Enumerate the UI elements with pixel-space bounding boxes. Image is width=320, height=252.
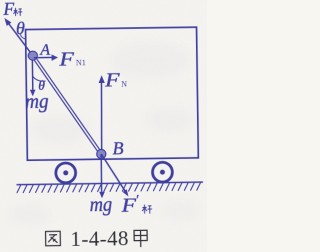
F'_rod arrow at B — [101, 154, 128, 197]
svg-text:F: F — [2, 0, 14, 19]
ground — [17, 182, 204, 193]
svg-text:mg: mg — [90, 195, 113, 216]
CJK subscript gan (rod) — [142, 205, 152, 214]
node B dot — [97, 149, 106, 158]
svg-text:B: B — [112, 138, 123, 158]
theta bottom: arc + label — [33, 76, 46, 81]
mg arrow at B — [99, 154, 105, 198]
faint scan smudges — [8, 42, 200, 225]
F_N1 arrow — [34, 54, 58, 61]
svg-text:A: A — [39, 42, 50, 59]
rod A-B (double line) — [32, 54, 103, 156]
mg arrow at A — [29, 60, 35, 96]
CJK subscript gan (rod) — [13, 8, 22, 16]
svg-text:N: N — [121, 79, 127, 88]
svg-text:F: F — [104, 70, 121, 91]
svg-text:1-4-48: 1-4-48 — [70, 226, 129, 251]
svg-text:θ: θ — [38, 78, 45, 93]
CJK tu (figure) — [46, 231, 61, 246]
CJK jia (A/first) — [134, 230, 147, 247]
theta top: arc + label — [20, 34, 26, 40]
left wheel — [56, 163, 76, 183]
caption: tu 1-4-48 jia — [46, 226, 148, 251]
cart body — [26, 27, 199, 160]
F_rod arrow at A — [4, 18, 32, 56]
svg-text:θ: θ — [16, 18, 25, 38]
F_N arrow at B — [98, 75, 105, 154]
svg-text:F: F — [58, 49, 75, 70]
svg-text:N1: N1 — [76, 58, 86, 67]
node A dot — [28, 51, 37, 60]
svg-text:mg: mg — [25, 92, 49, 113]
right wheel — [152, 162, 172, 182]
